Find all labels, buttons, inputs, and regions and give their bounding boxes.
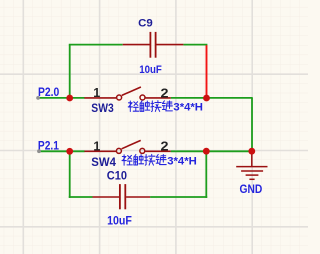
svg-text:SW3: SW3 [91,101,114,115]
wire bottom-right corner up to junction E [205,151,207,198]
wire bottom rail to C10 pin 1 [69,196,93,198]
svg-text:GND: GND [240,183,263,196]
wire top-right corner down to junction B (red colored net segment) [206,45,208,98]
wire top rail to C9 pin 1 [69,44,123,46]
轻 [128,101,138,111]
junction B (SW3 pin2 / C9) [203,95,210,102]
junction E (SW4 pin2 / C10) [203,148,210,155]
wire junction C down to bottom rail [69,151,71,198]
junction D (GND) [248,148,255,155]
capacitor C9 [123,32,184,58]
switch SW4 [84,140,170,153]
svg-text:1: 1 [93,86,100,100]
svg-text:10uF: 10uF [107,215,132,227]
svg-text:2: 2 [161,138,169,153]
svg-text:P2.1: P2.1 [38,139,59,153]
键 [162,101,172,111]
触 [140,101,150,112]
wire SW3 pin 2 to junction B and on to right rail [171,97,253,99]
svg-text:C10: C10 [107,170,127,182]
junction A (P2.0 / SW3 pin1) [66,95,73,102]
svg-text:10uF: 10uF [139,64,162,76]
description label 轻触按键3*4*H of SW4 [122,154,197,167]
wire P2.1 port to SW4 pin 1 (net P2.1) [39,150,85,152]
wire junction A up to top rail [69,45,71,99]
port dot P2.1 [37,149,41,153]
ground symbol GND [236,151,267,179]
junction C (P2.1 / SW4 pin1) [66,148,73,155]
svg-text:2: 2 [161,85,169,100]
description label 轻触按键3*4*H of SW3 [128,101,203,114]
svg-text:3*4*H: 3*4*H [173,102,203,114]
wire SW4 pin 2 to junction E and junction D [171,150,253,152]
svg-text:1: 1 [93,139,100,153]
wire right rail down to junction D (GND net) [251,98,253,151]
svg-text:P2.0: P2.0 [38,85,60,99]
capacitor C10 [93,184,151,209]
port dot P2.0 [36,96,40,100]
wire P2.0 port to SW3 pin 1 (net P2.0) [38,97,85,99]
按 [151,101,161,112]
wire C10 pin 2 to bottom-right corner [150,196,207,198]
switch SW3 [84,87,170,100]
wire C9 pin 2 to top-right corner [183,44,207,46]
svg-text:C9: C9 [138,17,153,29]
svg-text:SW4: SW4 [91,155,116,169]
